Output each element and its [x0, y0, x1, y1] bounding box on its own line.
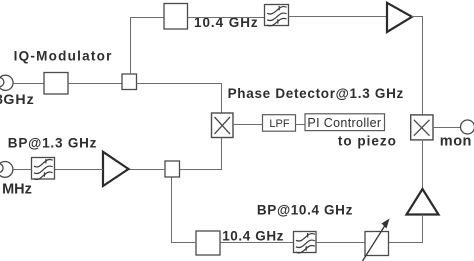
wire filter F2 to amplifier A3	[55, 169, 104, 171]
wire mixer M1 to LPF	[233, 124, 263, 126]
svg-text:10.4 GHz: 10.4 GHz	[222, 228, 284, 243]
wire mixer M2 to monitor port	[433, 127, 461, 129]
svg-text:Phase Detector@1.3 GHz: Phase Detector@1.3 GHz	[228, 86, 404, 101]
splitter S2	[165, 161, 180, 177]
svg-text:MHz: MHz	[2, 181, 32, 197]
wire mixer M2 down to amplifier A2	[422, 140, 424, 190]
wire splitter S1 to mixer M1 (corner)	[137, 84, 222, 114]
wire IQ-modulator to splitter S1	[68, 83, 122, 85]
variable attenuator	[363, 219, 390, 261]
bandpass filter F1 (top)	[265, 5, 289, 26]
multiplier box (10.4 GHz)	[164, 4, 188, 30]
svg-text:mon: mon	[440, 133, 472, 149]
svg-text:to piezo: to piezo	[338, 134, 397, 149]
wire bottom filter to multiplier box B4	[220, 242, 294, 244]
wire splitter S2 to mixer M1 (corner up)	[180, 138, 222, 170]
wire OSC1 to IQ-modulator	[13, 83, 44, 85]
wire attenuator to bottom filter F3	[316, 242, 365, 244]
svg-text:PI Controller: PI Controller	[307, 116, 381, 130]
svg-text:GHz: GHz	[3, 92, 34, 108]
bandpass filter F2 (left)	[32, 158, 55, 180]
multiplier box B4 (bottom)	[196, 231, 220, 255]
splitter S1	[122, 74, 137, 90]
mixer M2 (right)	[411, 115, 433, 140]
oscillator OSC2 (bottom left, cut at edge)	[0, 162, 13, 178]
mixer M1 (phase detector)	[212, 113, 234, 138]
wire amplifier A3 to splitter S2	[129, 169, 166, 171]
PI controller box	[305, 114, 385, 131]
wire A1 to mixer M2 (corner)	[412, 17, 423, 116]
wire B4 to splitter S2 (corner)	[172, 177, 197, 243]
IQ-modulator box	[44, 73, 68, 95]
amplifier A2 (pointing up)	[407, 189, 439, 215]
monitor port circle (cut at right edge)	[461, 120, 474, 134]
wire OSC2 to filter F2	[13, 169, 32, 171]
svg-text:LPF: LPF	[269, 118, 289, 130]
amplifier A1 (top right)	[387, 3, 412, 32]
svg-text:IQ-Modulator: IQ-Modulator	[14, 48, 113, 63]
wire A2 down to bottom row corner	[388, 215, 423, 243]
amplifier A3 (left, pointing right)	[103, 152, 129, 186]
bandpass filter F3 (bottom)	[294, 232, 317, 253]
svg-text:BP@10.4 GHz: BP@10.4 GHz	[257, 202, 353, 217]
wire splitter S1 up to multiplier (top row)	[131, 18, 165, 75]
wire LPF to PI controller	[296, 124, 306, 126]
wire top filter to amplifier A1	[289, 16, 388, 18]
svg-text:BP@1.3 GHz: BP@1.3 GHz	[8, 135, 97, 150]
wire multiplier to top filter	[188, 17, 265, 19]
oscillator OSC1 (top left, cut at edge)	[0, 75, 13, 90]
LPF box	[263, 115, 296, 132]
